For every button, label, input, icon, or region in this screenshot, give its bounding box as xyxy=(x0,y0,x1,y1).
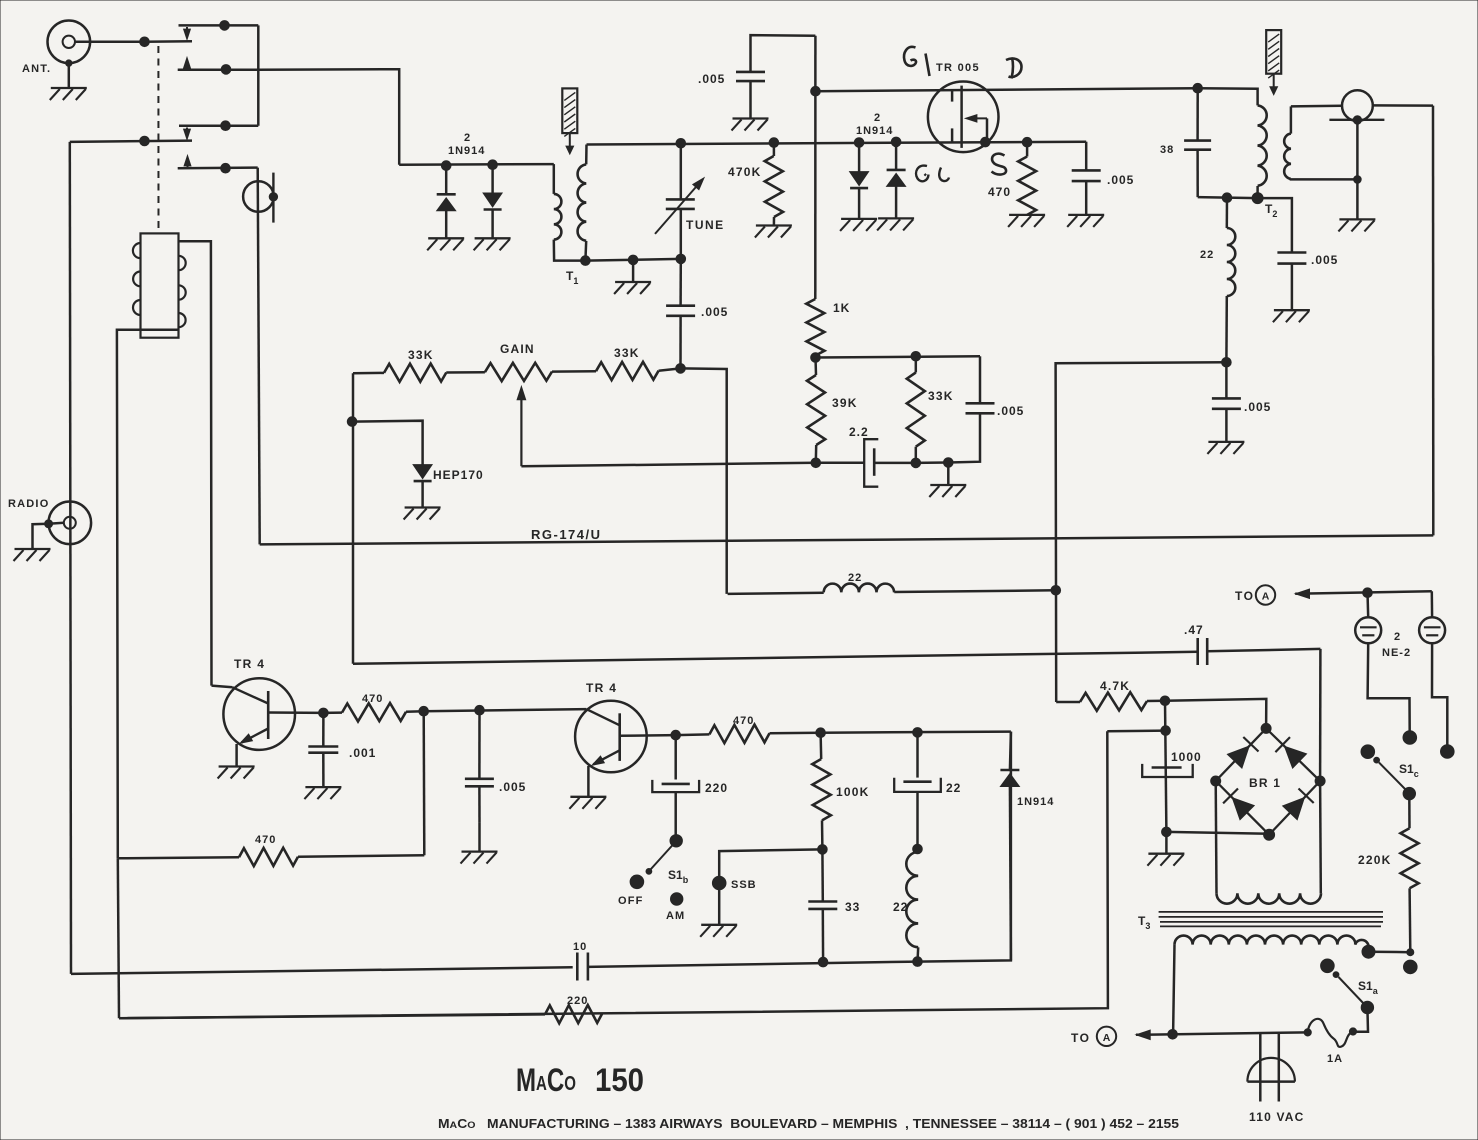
wire bridge AC left drop xyxy=(1214,781,1217,893)
output jack J4 (phone jack) xyxy=(1291,90,1433,219)
transformer T3 core xyxy=(1159,912,1383,927)
fuse F1 1A xyxy=(1304,1019,1357,1065)
label T1 xyxy=(566,269,578,286)
wire node G1/1K vertical xyxy=(811,36,821,299)
diode D3 1N914 (points down) xyxy=(850,143,869,219)
svg-text:ANT.: ANT. xyxy=(22,63,51,75)
svg-text:.005: .005 xyxy=(499,780,526,794)
switch S1b arm xyxy=(646,844,689,886)
potentiometer GAIN 33K xyxy=(485,342,552,466)
relay K1 contact bus wire xyxy=(257,25,260,125)
dual-gate MOSFET Q1 TR005 xyxy=(928,82,999,153)
svg-text:.005: .005 xyxy=(701,305,728,319)
svg-text:.005: .005 xyxy=(1107,173,1134,187)
wire RADIO branch to 10 cap xyxy=(71,967,573,974)
svg-text:.47: .47 xyxy=(1184,623,1204,637)
relay K1 section B lower contact xyxy=(178,156,258,174)
transformer T2 slug-tuning indicator xyxy=(1266,30,1281,95)
wire B+ node vertical xyxy=(1161,701,1171,832)
wire T2 bottom rail xyxy=(1198,193,1263,204)
variable capacitor TUNE xyxy=(655,143,725,263)
resistor 470 (source) xyxy=(988,137,1036,215)
svg-text:100K: 100K xyxy=(836,785,870,799)
svg-text:470: 470 xyxy=(733,715,754,727)
svg-text:1N914: 1N914 xyxy=(856,125,893,137)
transformer T1 slug-tuning indicator xyxy=(562,88,577,154)
neon lamp NE-2 #2 xyxy=(1419,591,1447,746)
wire bridge + output xyxy=(1165,699,1266,729)
resistor 470 (TR4#2 base) xyxy=(676,715,826,743)
label S (handwritten) xyxy=(992,154,1007,175)
switch S1c off contact xyxy=(1361,745,1380,763)
resistor 220 (series, bottom) xyxy=(118,858,602,1023)
neon lamp NE-2 #1 xyxy=(1355,593,1410,733)
capacitor .47 (coupling) xyxy=(1184,623,1320,665)
node detector junction xyxy=(1051,586,1061,596)
label T3 xyxy=(1138,914,1150,931)
label 2 1N914 (input clamp pair) xyxy=(448,132,485,157)
svg-text:MACO MANUFACTURING – 1383 AI: MACO MANUFACTURING – 1383 AIRWAYS BOULEV… xyxy=(438,1117,1179,1131)
ground (HEP170) xyxy=(404,508,441,520)
svg-text:220K: 220K xyxy=(1358,853,1392,867)
resistor 39K xyxy=(807,358,858,463)
transistor TR4 (second audio) xyxy=(575,681,647,797)
capacitor 33 xyxy=(808,849,860,962)
svg-text:A: A xyxy=(1262,591,1270,603)
svg-text:TO: TO xyxy=(1071,1031,1090,1045)
svg-text:470: 470 xyxy=(255,834,276,846)
node 22 coil bottom xyxy=(913,732,1011,967)
svg-text:10: 10 xyxy=(573,941,587,953)
label D (handwritten) xyxy=(1006,58,1022,79)
label G2 (handwritten) xyxy=(916,166,949,182)
wire B+ to filter drop xyxy=(1107,729,1165,732)
diode D2 1N914 (points down) xyxy=(483,160,502,238)
wire T1 bottom to ground tap and TUNE xyxy=(585,255,680,265)
inductor 22 uH (output) xyxy=(893,852,918,962)
capacitor .005 (below 22 uH) xyxy=(1212,362,1271,442)
node drain/T2 junction xyxy=(1193,83,1203,93)
resistor 1K xyxy=(806,299,850,358)
svg-text:2.2: 2.2 xyxy=(849,425,869,439)
capacitor .005 (below TUNE) xyxy=(666,259,728,369)
switch S1a arm and pole xyxy=(1339,977,1379,1014)
ground (D3) xyxy=(840,219,877,231)
diode D4 1N914 (points up) xyxy=(887,142,906,219)
ground (D1) xyxy=(427,238,464,250)
label T2 xyxy=(1265,202,1277,219)
resistor 33K (right of GAIN) xyxy=(552,346,681,380)
ground (output jack) xyxy=(1338,219,1375,231)
svg-text:TO: TO xyxy=(1235,589,1254,603)
resistor 470 (interstage) xyxy=(323,693,428,721)
wire bridge - to filter xyxy=(1166,832,1269,834)
ground (.001) xyxy=(304,787,341,799)
ground (TR4#1 emitter) xyxy=(218,767,255,779)
relay K1 section B moving arm xyxy=(70,136,192,146)
capacitor 220 (electrolytic) xyxy=(652,735,728,834)
svg-text:HEP170: HEP170 xyxy=(433,468,484,482)
capacitor 22 (electrolytic) xyxy=(894,732,961,849)
capacitor 1000 uF (filter) xyxy=(1142,750,1202,777)
node 22 cap bottom / coil top xyxy=(913,844,923,854)
label RG-174/U xyxy=(531,527,602,542)
label 2 1N914 (gate clamp pair) xyxy=(856,112,893,137)
svg-text:.005: .005 xyxy=(1311,253,1338,267)
logo MaCo 150 xyxy=(516,1062,644,1098)
inductor 22 uH (T2 base) xyxy=(1200,198,1235,363)
switch S1c contact (lamp 2) xyxy=(1441,745,1455,759)
wire coil top-right to TR4 collector drop xyxy=(179,241,212,685)
svg-text:220: 220 xyxy=(705,781,728,795)
ground (ANT jack) xyxy=(50,63,87,100)
resistor 33K (left of GAIN) xyxy=(353,348,485,382)
transformer T3 secondary winding xyxy=(1217,893,1322,903)
svg-text:33K: 33K xyxy=(408,348,434,362)
svg-text:.005: .005 xyxy=(1244,400,1271,414)
key jack J3 (circle with contact bar) xyxy=(243,168,277,545)
transformer T2 secondary winding xyxy=(1284,106,1361,183)
switch S1a contact (right) xyxy=(1404,960,1418,974)
capacitor 10 (series) xyxy=(573,941,918,981)
resistor 4.7K xyxy=(1056,679,1170,711)
ground (D2) xyxy=(474,238,511,250)
node .005/GAIN row junction xyxy=(676,364,727,594)
transformer T1 secondary winding xyxy=(578,145,591,266)
diode D1 1N914 (points up) xyxy=(437,161,456,239)
wire SSB contact to AM rail xyxy=(719,849,822,876)
svg-text:22: 22 xyxy=(1200,249,1214,261)
svg-text:1A: 1A xyxy=(1327,1053,1343,1065)
label TO (connector A, top) xyxy=(1235,589,1254,603)
label 2 NE-2 xyxy=(1382,631,1411,659)
resistor 470 (feedback) xyxy=(118,834,425,866)
svg-text:1N914: 1N914 xyxy=(1017,796,1054,808)
svg-text:220: 220 xyxy=(567,995,588,1007)
svg-text:BR 1: BR 1 xyxy=(1249,776,1281,790)
bridge rectifier BR1 outline xyxy=(1211,723,1325,840)
transformer T1 primary winding xyxy=(554,164,586,261)
svg-text:470: 470 xyxy=(362,693,383,705)
node A symbol (top) xyxy=(1256,585,1275,604)
svg-text:.005: .005 xyxy=(698,72,725,86)
wire T3 primary left drop xyxy=(1173,945,1174,1034)
relay K1 mechanical link (dashed) xyxy=(157,46,159,231)
coax jack J2 RADIO xyxy=(8,498,91,549)
svg-text:AM: AM xyxy=(666,910,685,922)
svg-text:1000: 1000 xyxy=(1171,750,1202,764)
wire TR4#2 collector rail xyxy=(821,728,1011,738)
label TR 005 (printed) xyxy=(936,62,980,74)
mains plug 110 VAC xyxy=(1247,1033,1304,1125)
wire coil bottom-left down the left side xyxy=(117,330,179,859)
wire interstage rail xyxy=(424,705,587,715)
resistor 470K xyxy=(728,143,783,226)
svg-text:470: 470 xyxy=(988,185,1011,199)
relay K1 section B upper contact xyxy=(179,121,258,140)
svg-text:GAIN: GAIN xyxy=(500,342,535,356)
wire mains rail with arrow xyxy=(1136,1030,1308,1040)
ground (TR4#2 emitter) xyxy=(569,797,606,809)
ground (.005 T2) xyxy=(1273,310,1310,322)
wire bridge AC right / rectifier drop xyxy=(1319,649,1322,893)
bridge diode (upper-right, points to +) xyxy=(1275,737,1306,768)
transformer T3 primary winding xyxy=(1175,936,1376,959)
svg-text:22: 22 xyxy=(893,900,908,914)
capacitor 38 pF xyxy=(1160,88,1211,197)
capacitor .001 xyxy=(308,713,376,787)
footer address line xyxy=(438,1117,1179,1131)
bridge diode (lower-left, from -) xyxy=(1223,789,1254,820)
svg-text:1N914: 1N914 xyxy=(448,145,485,157)
resistor 100K xyxy=(812,733,869,855)
ground (470K) xyxy=(755,226,792,238)
capacitor .005 (drain bypass, top) xyxy=(698,35,815,118)
wire S1a pole to fuse xyxy=(1353,1008,1368,1032)
node 1K bottom junction xyxy=(811,352,980,363)
svg-text:.005: .005 xyxy=(997,404,1024,418)
transistor TR4 (first audio) xyxy=(212,657,296,767)
svg-text:38: 38 xyxy=(1160,144,1174,156)
switch S1b contact SSB xyxy=(712,876,756,891)
svg-text:22: 22 xyxy=(848,572,862,584)
switch S1b contact AM xyxy=(666,893,685,922)
svg-text:22: 22 xyxy=(946,781,961,795)
wire SSB ground lead xyxy=(718,890,721,925)
svg-text:OFF: OFF xyxy=(618,895,644,907)
relay coil K1 (tapped coil form) xyxy=(133,233,186,337)
wire coax RG-174/U run xyxy=(260,535,1434,544)
ground (1000 uF) xyxy=(1147,827,1184,866)
label G1 (handwritten) xyxy=(904,47,929,76)
svg-text:NE-2: NE-2 xyxy=(1382,647,1411,659)
wire audio takeoff (to .47) xyxy=(353,652,1198,664)
wire rail A (relay to T1 primary) xyxy=(399,163,554,166)
wire T3 primary right to 220K xyxy=(1369,949,1414,956)
svg-text:2: 2 xyxy=(464,132,471,144)
capacitor .005 (T2 secondary side) xyxy=(1258,198,1339,310)
wire to lamps with arrow xyxy=(1295,588,1432,599)
svg-text:SSB: SSB xyxy=(731,879,757,891)
wire TR4#2 base node xyxy=(620,730,681,740)
switch S1b contact OFF xyxy=(618,875,644,907)
wire GAIN wiper to AGC node xyxy=(521,463,815,467)
node 22uH/.005 junction xyxy=(1222,358,1232,368)
wire G1 lead / drain rail xyxy=(816,88,1198,91)
ground (D4) xyxy=(877,218,914,230)
switch S1b pole xyxy=(670,835,682,847)
switch S1c arm and pole xyxy=(1379,762,1419,800)
wire relay NC contact to receiver rail xyxy=(258,69,399,165)
svg-text:TUNE: TUNE xyxy=(686,218,725,232)
node 33 cap bottom xyxy=(818,957,828,967)
relay K1 section A moving arm (from ANT) xyxy=(140,37,192,47)
inductor 22 uH (detector filter) xyxy=(728,572,1056,594)
svg-text:33: 33 xyxy=(845,900,860,914)
svg-text:150: 150 xyxy=(595,1062,644,1098)
ground (470 source) xyxy=(1008,215,1045,227)
ground (SSB) xyxy=(700,925,737,937)
bridge diode (lower-right, from -) xyxy=(1283,789,1314,820)
svg-text:TR 4: TR 4 xyxy=(586,681,617,695)
wire AGC bottom rail xyxy=(916,458,953,468)
svg-text:RG-174/U: RG-174/U xyxy=(531,527,602,542)
wire relay arm to RADIO jack (long left vertical) xyxy=(70,142,71,974)
svg-text:TR 4: TR 4 xyxy=(234,657,265,671)
coax jack J1 ANT. xyxy=(22,21,145,76)
capacitor .005 (source bypass) xyxy=(1072,142,1135,215)
ground (.005 top) xyxy=(732,119,769,131)
capacitor .005 (interstage) xyxy=(465,710,526,851)
ground (.005 below 22uH) xyxy=(1207,442,1244,454)
svg-text:2: 2 xyxy=(874,112,881,124)
svg-text:RADIO: RADIO xyxy=(8,498,49,510)
svg-text:33K: 33K xyxy=(614,346,640,360)
svg-text:A: A xyxy=(1103,1032,1111,1044)
wire 22uH node to RF detector drop xyxy=(1056,362,1227,702)
resistor 33K (AGC divider) xyxy=(907,356,954,467)
svg-text:110 VAC: 110 VAC xyxy=(1249,1110,1305,1124)
ground (.005 source) xyxy=(1067,215,1104,227)
transformer T2 primary winding xyxy=(1198,88,1267,198)
relay K1 section A upper contact xyxy=(179,21,259,40)
relay K1 section A lower contact xyxy=(178,58,259,75)
bridge diode (upper-left, points to +) xyxy=(1227,737,1258,768)
ground (.005 interstage) xyxy=(461,852,498,864)
resistor 220K xyxy=(1358,794,1419,953)
svg-text:39K: 39K xyxy=(832,396,858,410)
ground (RADIO jack) xyxy=(14,549,51,561)
wire B+ long return (bottom) xyxy=(119,731,1108,1018)
diode 1N914 (detector) xyxy=(1000,732,1054,961)
svg-text:33K: 33K xyxy=(928,389,954,403)
svg-text:2: 2 xyxy=(1394,631,1401,643)
ground (T1 tank tap) xyxy=(614,260,651,294)
ground (AGC rail) xyxy=(929,463,966,498)
capacitor .005 (AGC bypass) xyxy=(948,356,1024,462)
label TO (connector A, bottom) xyxy=(1071,1031,1090,1045)
capacitor 2.2 (electrolytic, series) xyxy=(811,425,916,487)
wire GAIN row left drop xyxy=(347,373,357,664)
svg-text:.001: .001 xyxy=(349,746,376,760)
wire TR4#1 base node xyxy=(268,708,328,718)
node A symbol (bottom) xyxy=(1097,1027,1116,1046)
switch S1c contact (lamp 1) xyxy=(1403,731,1417,745)
wire right-edge vertical (jack to coax run) xyxy=(1432,106,1435,536)
wire feedback node drop xyxy=(422,711,425,855)
svg-text:4.7K: 4.7K xyxy=(1100,679,1130,693)
svg-text:1K: 1K xyxy=(833,301,850,315)
svg-text:TR 005: TR 005 xyxy=(936,62,980,74)
svg-text:470K: 470K xyxy=(728,165,762,179)
wire rail B (tank / gate-2 rail) xyxy=(587,137,1087,148)
switch S1a contact (left) xyxy=(1321,959,1339,977)
diode HEP170 xyxy=(352,421,484,508)
